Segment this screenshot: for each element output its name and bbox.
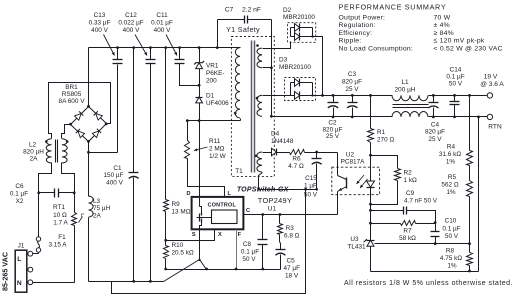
svg-text:19 V: 19 V bbox=[484, 74, 498, 81]
transistor mosfet U1 internal bbox=[199, 197, 201, 207]
svg-text:L1: L1 bbox=[401, 79, 409, 86]
svg-text:U3: U3 bbox=[350, 236, 359, 243]
wire N input bbox=[33, 282, 75, 284]
svg-text:D2: D2 bbox=[283, 7, 292, 14]
svg-text:18 V: 18 V bbox=[285, 273, 299, 280]
svg-text:BR1: BR1 bbox=[65, 84, 78, 91]
wire bridge minus down bbox=[88, 142, 90, 197]
svg-text:85-265 VAC: 85-265 VAC bbox=[1, 252, 10, 291]
svg-text:± 4%: ± 4% bbox=[434, 22, 450, 29]
svg-text:25 V: 25 V bbox=[326, 133, 340, 140]
svg-text:PERFORMANCE SUMMARY: PERFORMANCE SUMMARY bbox=[339, 3, 447, 12]
arrow C12 bbox=[135, 35, 147, 56]
svg-text:S: S bbox=[192, 232, 196, 238]
wire secondary 1 top to D2 bbox=[263, 42, 291, 49]
svg-text:820 µF: 820 µF bbox=[425, 129, 445, 136]
terminal 19V output bbox=[487, 93, 492, 98]
diode D1 bbox=[196, 97, 203, 103]
svg-text:13 MΩ: 13 MΩ bbox=[172, 208, 191, 215]
svg-text:3.15 A: 3.15 A bbox=[48, 242, 67, 249]
arrow C13 bbox=[104, 35, 115, 56]
svg-text:1N4148: 1N4148 bbox=[271, 138, 294, 145]
svg-text:VR1: VR1 bbox=[206, 63, 219, 70]
svg-text:1%: 1% bbox=[447, 262, 457, 269]
svg-text:C15: C15 bbox=[305, 175, 317, 182]
wire F pin bbox=[236, 230, 238, 270]
wire TL431 anode bus bbox=[371, 271, 479, 273]
svg-text:6.8 Ω: 6.8 Ω bbox=[284, 232, 300, 239]
svg-text:50 V: 50 V bbox=[242, 256, 256, 263]
svg-text:PC817A: PC817A bbox=[341, 159, 366, 166]
capacitor C9 bbox=[369, 209, 372, 212]
svg-text:TOP249Y: TOP249Y bbox=[258, 196, 292, 205]
svg-text:200 µH: 200 µH bbox=[395, 86, 416, 93]
svg-text:D4: D4 bbox=[271, 130, 280, 137]
svg-text:10 Ω: 10 Ω bbox=[53, 212, 67, 219]
svg-text:20.5 kΩ: 20.5 kΩ bbox=[172, 250, 194, 257]
transformer core bbox=[251, 41, 253, 173]
svg-text:X: X bbox=[218, 232, 222, 238]
optocoupler U2 bbox=[332, 167, 380, 195]
svg-text:R4: R4 bbox=[447, 143, 456, 150]
wire primary bottom node bbox=[188, 120, 241, 122]
resistor R7 bbox=[369, 222, 372, 225]
svg-text:562 Ω: 562 Ω bbox=[441, 181, 458, 188]
svg-text:1.7 A: 1.7 A bbox=[53, 220, 68, 227]
svg-text:25 V: 25 V bbox=[345, 86, 359, 93]
arrow R11 bbox=[194, 147, 208, 151]
svg-text:0.33 µF: 0.33 µF bbox=[89, 20, 111, 27]
svg-text:C13: C13 bbox=[94, 12, 106, 19]
svg-text:C6: C6 bbox=[15, 183, 24, 190]
svg-text:C12: C12 bbox=[125, 12, 137, 19]
op-amp U1 TOPSwitch block bbox=[192, 197, 244, 229]
capacitor C11 bbox=[178, 46, 181, 49]
wire L2 left bottom to C6 bbox=[39, 163, 52, 193]
wire L2 right top to bridge left corner bbox=[62, 125, 71, 139]
svg-text:TL431: TL431 bbox=[347, 243, 366, 250]
svg-text:25 V: 25 V bbox=[428, 136, 442, 143]
wire secondary output rail bbox=[263, 95, 295, 97]
svg-text:47 µF: 47 µF bbox=[284, 265, 301, 272]
svg-text:1 kΩ: 1 kΩ bbox=[404, 177, 418, 184]
svg-text:4.75 kΩ: 4.75 kΩ bbox=[440, 255, 462, 262]
svg-text:400 V: 400 V bbox=[91, 27, 108, 34]
bridge diode bottom-left bbox=[76, 129, 85, 138]
capacitor C4 bbox=[432, 94, 435, 97]
resistor R11 bbox=[187, 121, 189, 141]
transformer secondary winding 2 bbox=[257, 95, 262, 116]
svg-text:MBR20100: MBR20100 bbox=[283, 14, 315, 21]
capacitor C3 bbox=[351, 94, 354, 97]
resistor R3 bbox=[279, 213, 282, 216]
svg-text:T1: T1 bbox=[235, 168, 243, 175]
capacitor C13 bbox=[116, 46, 119, 49]
diode D4 bbox=[272, 148, 277, 156]
resistor R10 bbox=[164, 246, 169, 259]
terminal RTN bbox=[487, 114, 492, 119]
svg-text:270 Ω: 270 Ω bbox=[377, 137, 394, 144]
wire TL431 ref bus bbox=[375, 243, 470, 245]
resistor R6 bbox=[290, 150, 305, 155]
svg-text:C11: C11 bbox=[156, 12, 168, 19]
capacitor C2 bbox=[332, 94, 335, 97]
svg-text:1%: 1% bbox=[446, 189, 456, 196]
svg-text:RT1: RT1 bbox=[53, 204, 65, 211]
wire R11 to L pin bbox=[188, 159, 225, 197]
svg-text:1 µF: 1 µF bbox=[304, 182, 317, 189]
capacitor C7 bbox=[218, 19, 245, 21]
svg-text:70 W: 70 W bbox=[434, 15, 451, 22]
svg-text:t°: t° bbox=[81, 213, 84, 219]
opto light arrows bbox=[357, 175, 365, 184]
svg-text:400 V: 400 V bbox=[154, 27, 171, 34]
svg-text:400 V: 400 V bbox=[123, 27, 140, 34]
svg-text:N: N bbox=[17, 280, 22, 287]
fuse F1 bbox=[33, 253, 39, 255]
capacitor C10 bbox=[435, 223, 437, 232]
svg-text:C4: C4 bbox=[431, 121, 440, 128]
svg-text:50 V: 50 V bbox=[445, 233, 459, 240]
wire RTN to feedback bbox=[478, 117, 480, 272]
bridge rectifier BR1 bbox=[71, 107, 107, 142]
resistor R9 bbox=[164, 46, 167, 49]
svg-text:C3: C3 bbox=[348, 71, 357, 78]
svg-text:< 0.52 W @ 230 VAC: < 0.52 W @ 230 VAC bbox=[434, 45, 503, 52]
svg-text:4.7 nF 50 V: 4.7 nF 50 V bbox=[404, 197, 438, 204]
svg-text:Efficiency:: Efficiency: bbox=[339, 30, 373, 37]
svg-text:1/2 W: 1/2 W bbox=[209, 153, 227, 160]
svg-text:C10: C10 bbox=[445, 218, 457, 225]
svg-text:50 V: 50 V bbox=[304, 191, 318, 198]
resistor R1 bbox=[369, 94, 372, 97]
svg-text:200: 200 bbox=[206, 78, 217, 85]
zener VR1 bbox=[198, 46, 201, 49]
svg-text:No Load Consumption:: No Load Consumption: bbox=[339, 45, 414, 52]
svg-text:C: C bbox=[246, 208, 250, 214]
choke L2 bbox=[46, 139, 51, 163]
svg-text:C9: C9 bbox=[406, 190, 415, 197]
svg-text:Ripple:: Ripple: bbox=[339, 38, 362, 45]
resistor R5 bbox=[469, 166, 471, 181]
wire X pin to R9/R10 node bbox=[166, 230, 215, 241]
svg-text:D3: D3 bbox=[279, 57, 288, 64]
svg-text:R8: R8 bbox=[446, 247, 455, 254]
wire bridge+ vertical bbox=[88, 48, 90, 107]
wire source return bus bbox=[166, 269, 281, 271]
svg-text:R1: R1 bbox=[377, 129, 386, 136]
svg-text:J1: J1 bbox=[18, 243, 25, 250]
thermistor RT1 bbox=[74, 193, 76, 213]
svg-text:R5: R5 bbox=[448, 174, 457, 181]
svg-text:≥ 84%: ≥ 84% bbox=[434, 30, 454, 37]
capacitor C12 bbox=[149, 46, 152, 49]
svg-text:2A: 2A bbox=[30, 156, 39, 163]
svg-text:58 kΩ: 58 kΩ bbox=[399, 235, 416, 242]
svg-text:R10: R10 bbox=[172, 242, 184, 249]
svg-text:C7: C7 bbox=[225, 7, 234, 14]
svg-text:8A 600 V: 8A 600 V bbox=[59, 98, 86, 105]
svg-text:C1: C1 bbox=[113, 165, 122, 172]
svg-text:≤ 120 mV pk-pk: ≤ 120 mV pk-pk bbox=[434, 38, 485, 45]
wire L input to C6 node bbox=[38, 193, 40, 237]
svg-text:RS805: RS805 bbox=[62, 91, 82, 98]
wire bias return bbox=[259, 173, 317, 190]
wire primary return bus bbox=[89, 281, 164, 283]
svg-text:0.1 µF: 0.1 µF bbox=[442, 225, 460, 232]
diode opto LED bbox=[370, 156, 372, 182]
svg-text:820 µF: 820 µF bbox=[342, 79, 362, 86]
wire S pin with split bbox=[199, 230, 201, 260]
wire output return rail bbox=[272, 116, 393, 118]
svg-text:All resistors 1/8 W 5% unless: All resistors 1/8 W 5% unless otherwise … bbox=[344, 280, 513, 287]
wire bottom bus bbox=[101, 281, 112, 283]
svg-text:Output Power:: Output Power: bbox=[339, 15, 386, 22]
wire drain bbox=[199, 121, 201, 197]
transformer T1 primary winding bbox=[235, 48, 240, 118]
capacitor C6 bbox=[39, 192, 55, 194]
wire D2 output bbox=[313, 37, 323, 96]
svg-text:L2: L2 bbox=[29, 141, 37, 148]
svg-text:31.6 kΩ: 31.6 kΩ bbox=[439, 151, 461, 158]
svg-text:U2: U2 bbox=[346, 151, 355, 158]
svg-text:C5: C5 bbox=[287, 258, 296, 265]
transformer bias winding bbox=[257, 152, 262, 172]
wire secondary 1 bottom bbox=[263, 67, 272, 69]
wire C pin bbox=[244, 214, 338, 216]
bridge diode top-right bbox=[94, 111, 103, 120]
svg-text:0.1 µF: 0.1 µF bbox=[10, 190, 28, 197]
svg-text:Regulation:: Regulation: bbox=[339, 22, 376, 29]
svg-text:R3: R3 bbox=[286, 225, 295, 232]
svg-text:R11: R11 bbox=[209, 138, 221, 145]
svg-text:2A: 2A bbox=[93, 213, 102, 220]
wire L2 left top loop around bridge bbox=[49, 83, 111, 139]
svg-text:150 µF: 150 µF bbox=[103, 172, 123, 179]
svg-text:R2: R2 bbox=[404, 170, 413, 177]
capacitor C14 bbox=[453, 94, 456, 97]
svg-text:820 µH: 820 µH bbox=[23, 148, 44, 155]
svg-text:400 V: 400 V bbox=[106, 179, 123, 186]
svg-text:D: D bbox=[186, 191, 190, 197]
wire top DC bus B+ bbox=[89, 47, 241, 49]
shunt U3 TL431 bbox=[367, 240, 374, 246]
svg-text:0.01 µF: 0.01 µF bbox=[151, 20, 173, 27]
svg-text:C8: C8 bbox=[243, 241, 252, 248]
resistor R4 bbox=[469, 96, 471, 151]
svg-text:4.7 Ω: 4.7 Ω bbox=[288, 163, 304, 170]
svg-text:F1: F1 bbox=[58, 234, 66, 241]
transformer secondary winding 1 bbox=[257, 48, 262, 68]
svg-text:75 µH: 75 µH bbox=[93, 205, 111, 212]
svg-text:50 V: 50 V bbox=[449, 80, 463, 87]
arrow C11 bbox=[166, 35, 177, 56]
svg-text:D1: D1 bbox=[206, 93, 215, 100]
svg-text:F: F bbox=[238, 232, 242, 238]
svg-text:0.022 µF: 0.022 µF bbox=[118, 20, 143, 27]
transistor opto phototransistor bbox=[337, 153, 339, 176]
inductor L3 bbox=[89, 196, 94, 217]
capacitor C15 bbox=[315, 151, 318, 154]
svg-text:MBR20100: MBR20100 bbox=[279, 64, 311, 71]
svg-text:0.1 µF: 0.1 µF bbox=[241, 249, 259, 256]
wire bias winding top bbox=[263, 152, 272, 154]
diode D3 dual bbox=[285, 78, 316, 101]
svg-text:Y1 Safety: Y1 Safety bbox=[226, 25, 260, 34]
svg-text:2.2 nF: 2.2 nF bbox=[242, 7, 261, 14]
connector J1 bbox=[15, 250, 27, 292]
diode D2 dual bbox=[288, 23, 316, 43]
wire C13 return bbox=[89, 152, 118, 154]
svg-text:2 MΩ: 2 MΩ bbox=[209, 146, 225, 153]
capacitor C8 bbox=[261, 213, 264, 216]
svg-text:CONTROL: CONTROL bbox=[208, 203, 237, 209]
svg-text:U1: U1 bbox=[268, 206, 277, 213]
capacitor C1 bbox=[132, 46, 135, 49]
transformer T1 bbox=[231, 37, 274, 177]
resistor R2 bbox=[371, 156, 398, 169]
svg-text:X2: X2 bbox=[16, 198, 24, 205]
svg-text:1%: 1% bbox=[446, 158, 456, 165]
svg-text:R7: R7 bbox=[403, 227, 412, 234]
svg-text:L3: L3 bbox=[93, 198, 101, 205]
svg-text:UF4006: UF4006 bbox=[206, 100, 229, 107]
bridge diode bottom-right bbox=[92, 129, 101, 138]
svg-text:@ 3.6 A: @ 3.6 A bbox=[480, 81, 504, 88]
svg-text:RTN: RTN bbox=[488, 123, 502, 130]
svg-text:R9: R9 bbox=[172, 201, 181, 208]
svg-text:R6: R6 bbox=[292, 155, 301, 162]
capacitor C5 bbox=[279, 235, 281, 242]
inductor L1 bbox=[392, 95, 428, 100]
svg-text:P6KE-: P6KE- bbox=[206, 70, 224, 77]
svg-text:L: L bbox=[17, 256, 21, 263]
wire center tap rail bbox=[271, 20, 273, 117]
wire L2 right bottom to RT1 node bbox=[62, 163, 75, 193]
resistor R8 bbox=[469, 244, 471, 253]
bridge diode top-left bbox=[75, 111, 84, 120]
